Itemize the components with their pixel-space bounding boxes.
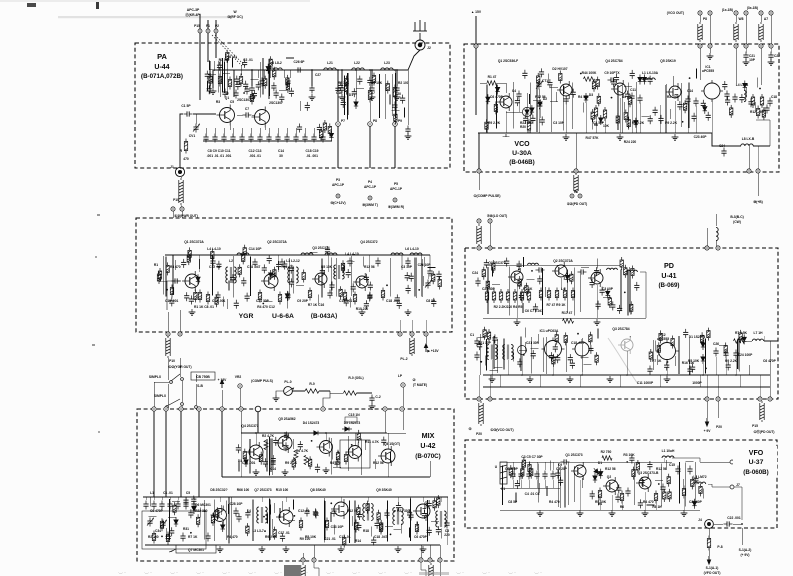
trimmer CT1 bbox=[536, 81, 541, 90]
wire bbox=[241, 65, 243, 75]
pin LO c bbox=[477, 246, 481, 250]
resistors right bbox=[751, 94, 754, 108]
capacitor bbox=[217, 62, 222, 71]
diode D2 PD bbox=[701, 354, 705, 364]
wire bbox=[251, 78, 259, 80]
resistor bbox=[215, 294, 218, 307]
capacitor bbox=[289, 265, 294, 274]
svg-text:R2 2.2K/220 R4 R5: R2 2.2K/220 R4 R5 bbox=[494, 305, 523, 309]
svg-text:·—· ··: ·—· ·· bbox=[352, 571, 360, 575]
wire bbox=[352, 516, 354, 526]
svg-text:Q7 2SC373: Q7 2SC373 bbox=[254, 488, 271, 492]
svg-text:R8 1K: R8 1K bbox=[652, 505, 662, 509]
wire bbox=[168, 517, 176, 519]
diode in box bbox=[174, 517, 178, 527]
VFO top rail bbox=[500, 461, 586, 463]
svg-text:D3: D3 bbox=[589, 93, 593, 97]
svg-text:·—· ··: ·—· ·· bbox=[274, 571, 282, 575]
wire bbox=[363, 257, 365, 267]
junction bbox=[658, 483, 660, 485]
wire riser bbox=[622, 85, 624, 132]
svg-text:R9 2.2K: R9 2.2K bbox=[265, 535, 278, 539]
svg-text:C15 .001: C15 .001 bbox=[212, 299, 226, 303]
junction bbox=[705, 368, 707, 370]
wire riser bbox=[335, 258, 337, 297]
wire riser bbox=[347, 73, 349, 115]
wire YGR out right bbox=[416, 255, 430, 268]
svg-text:SIMPLX: SIMPLX bbox=[149, 375, 162, 379]
svg-text:C14: C14 bbox=[687, 89, 693, 93]
resistor bbox=[592, 79, 595, 92]
svg-text:P-8: P-8 bbox=[717, 545, 722, 549]
resistor bbox=[700, 332, 703, 345]
svg-text:PL-0: PL-0 bbox=[284, 380, 291, 384]
svg-text:Q5 2SK19: Q5 2SK19 bbox=[660, 59, 676, 63]
wire riser bbox=[217, 61, 219, 92]
diode bbox=[269, 270, 273, 280]
svg-text:C3 10P: C3 10P bbox=[593, 121, 605, 125]
scan artifact top-left bbox=[27, 3, 36, 7]
resistor bbox=[238, 264, 241, 277]
capacitor bbox=[338, 82, 343, 91]
gnd sub bbox=[253, 469, 260, 475]
resistor bbox=[341, 260, 344, 273]
svg-text:R66 100: R66 100 bbox=[237, 488, 250, 492]
resistor Rin bbox=[158, 268, 161, 282]
wire riser bbox=[288, 258, 290, 299]
svg-text:L4: L4 bbox=[247, 509, 251, 513]
svg-text:C15 .001: C15 .001 bbox=[165, 299, 179, 303]
svg-text:R12 56: R12 56 bbox=[364, 265, 375, 269]
wire P15 down bbox=[199, 33, 201, 70]
wire bbox=[150, 497, 152, 507]
diode bbox=[196, 274, 200, 284]
wire bbox=[356, 88, 364, 90]
pin P8 bbox=[368, 122, 373, 127]
wire riser bbox=[633, 463, 635, 505]
capacitor C18 bbox=[767, 98, 772, 107]
driver stage cluster bbox=[199, 70, 201, 100]
wire riser bbox=[520, 336, 522, 371]
wire bbox=[524, 342, 526, 352]
diode bbox=[593, 473, 597, 483]
transistor Q8 MIX right bbox=[378, 446, 395, 466]
transistor Q1 2SC1307 bbox=[217, 105, 235, 126]
capacitor bbox=[243, 81, 248, 90]
resistor bbox=[559, 71, 562, 84]
wire P8 down bbox=[369, 126, 371, 168]
coax below MIX left bbox=[301, 563, 305, 576]
svg-text:2SC1307: 2SC1307 bbox=[269, 101, 283, 105]
block YGR dashed border bbox=[136, 218, 452, 332]
svg-text:C18: C18 bbox=[771, 95, 777, 99]
xfmr MIX4 bbox=[436, 511, 446, 527]
svg-text:C21 30P: C21 30P bbox=[256, 299, 270, 303]
capacitor bbox=[371, 537, 376, 546]
wire bbox=[333, 466, 341, 468]
capacitor bbox=[169, 297, 174, 306]
resistor bbox=[591, 109, 594, 122]
inductor L23 bbox=[381, 68, 394, 70]
wire bbox=[174, 260, 176, 270]
capacitor bbox=[558, 477, 563, 486]
svg-text:Q2 2SC372A: Q2 2SC372A bbox=[267, 240, 287, 244]
wire riser bbox=[269, 436, 271, 475]
wire riser bbox=[361, 438, 363, 474]
pin PD br a bbox=[705, 397, 709, 401]
capacitor C20 分 bbox=[405, 126, 410, 135]
svg-text:Q8 3SK40: Q8 3SK40 bbox=[310, 488, 326, 492]
wire to bottom pins bbox=[302, 553, 304, 558]
svg-text:C3 C5 C7 30P: C3 C5 C7 30P bbox=[521, 455, 543, 459]
ground after P8 bbox=[709, 48, 711, 53]
wire bbox=[581, 357, 589, 359]
svg-text:PA: PA bbox=[157, 52, 167, 61]
wire bbox=[646, 504, 654, 506]
capacitor bbox=[375, 520, 380, 529]
resistor bbox=[596, 77, 599, 90]
wire riser bbox=[325, 501, 327, 540]
wire PD out right bbox=[745, 340, 752, 342]
wire riser bbox=[259, 62, 261, 98]
supply +13V right bbox=[424, 344, 427, 352]
transistor Q4 MIX bbox=[246, 442, 263, 462]
resistor bbox=[668, 489, 671, 502]
svg-text:R9 2.2K: R9 2.2K bbox=[488, 121, 501, 125]
svg-text:⑨(3WM T): ⑨(3WM T) bbox=[362, 203, 378, 207]
wire bbox=[672, 76, 674, 86]
resistor R8 bbox=[393, 85, 396, 100]
capacitor bbox=[236, 513, 241, 522]
capacitor bbox=[492, 334, 497, 343]
svg-text:C15 1N: C15 1N bbox=[348, 413, 360, 417]
diode D6 bbox=[192, 504, 196, 514]
wire bbox=[238, 461, 240, 471]
wire riser bbox=[211, 255, 213, 295]
svg-text:(B-071A,072B): (B-071A,072B) bbox=[141, 73, 183, 80]
svg-text:R12 56: R12 56 bbox=[373, 461, 384, 465]
wire riser bbox=[219, 59, 221, 97]
pin P9 bbox=[393, 122, 398, 127]
wire riser bbox=[629, 267, 631, 313]
capacitor bbox=[368, 282, 373, 291]
capacitor bbox=[648, 76, 653, 85]
svg-text:R18: R18 bbox=[363, 529, 369, 533]
capacitor C26 bbox=[295, 67, 304, 72]
svg-text:Ⓥ(KR-4P): Ⓥ(KR-4P) bbox=[185, 12, 200, 17]
wire bbox=[518, 476, 520, 486]
resistor bbox=[487, 329, 490, 342]
wire bbox=[431, 520, 439, 522]
resistor bbox=[494, 101, 497, 114]
wire below MIX c bbox=[421, 562, 426, 576]
capacitor bbox=[241, 277, 246, 286]
wire riser bbox=[268, 499, 270, 541]
svg-text:R15 100: R15 100 bbox=[276, 488, 289, 492]
capacitor bbox=[242, 59, 247, 68]
resistor bbox=[724, 343, 727, 356]
svg-text:.001 .01 .01 .001: .001 .01 .01 .001 bbox=[207, 154, 232, 158]
diode D1 PD bbox=[701, 340, 705, 350]
wire bbox=[272, 519, 274, 529]
wire riser bbox=[252, 500, 254, 542]
svg-text:R4 470 C12: R4 470 C12 bbox=[257, 305, 275, 309]
resistors lower bbox=[299, 518, 302, 531]
capacitor bbox=[436, 526, 441, 535]
wire riser bbox=[681, 83, 683, 127]
svg-text:R2 100: R2 100 bbox=[667, 95, 678, 99]
resistor bbox=[336, 450, 339, 463]
ic IC1 PD bbox=[542, 338, 565, 361]
svg-text:R5 10K: R5 10K bbox=[371, 81, 383, 85]
junction bbox=[330, 502, 332, 504]
wire riser bbox=[395, 73, 397, 117]
svg-text:P7: P7 bbox=[341, 119, 345, 123]
resistor bbox=[273, 67, 276, 80]
wire riser bbox=[343, 76, 345, 115]
svg-text:·—· ··: ·—· ·· bbox=[326, 571, 334, 575]
pin MIX big bbox=[255, 406, 261, 412]
capacitor bbox=[658, 115, 663, 124]
caps PD left bbox=[474, 338, 479, 347]
resistor cluster YGR1 bbox=[198, 290, 201, 303]
wire bbox=[375, 459, 377, 469]
wire bbox=[389, 94, 391, 104]
resistor bbox=[552, 354, 555, 367]
wire switch risers bbox=[167, 358, 169, 380]
wire bbox=[522, 303, 524, 313]
capacitor bbox=[381, 437, 386, 446]
svg-text:⑩(+B): ⑩(+B) bbox=[753, 200, 762, 204]
small parts row bbox=[257, 70, 259, 78]
pin MIX bottom d bbox=[428, 558, 432, 562]
wire riser bbox=[496, 85, 498, 129]
wire riser bbox=[323, 498, 325, 542]
svg-text:C14 10P: C14 10P bbox=[249, 247, 263, 251]
svg-text:C21 30P: C21 30P bbox=[482, 287, 496, 291]
wire bbox=[696, 69, 698, 79]
resistor bbox=[657, 342, 660, 355]
junction bbox=[264, 530, 266, 532]
capacitor bbox=[357, 511, 362, 520]
wire riser bbox=[421, 255, 423, 296]
resistor bbox=[160, 518, 163, 531]
resistor bbox=[589, 332, 592, 345]
diode bbox=[642, 75, 646, 85]
trimmer CV1 bbox=[193, 124, 198, 133]
wire bbox=[657, 355, 659, 365]
capacitor bbox=[614, 74, 619, 83]
capacitor bbox=[364, 300, 369, 309]
wire bbox=[264, 301, 272, 303]
wire bbox=[655, 340, 657, 350]
junction bbox=[204, 510, 206, 512]
svg-text:10P: 10P bbox=[749, 58, 756, 62]
gnd VFO bbox=[537, 510, 544, 516]
svg-text:①(COMP PULSE): ①(COMP PULSE) bbox=[474, 194, 501, 198]
svg-text:R1 1K C8 .01: R1 1K C8 .01 bbox=[194, 305, 214, 309]
capacitor bbox=[191, 496, 196, 505]
wire PD second bus bbox=[483, 386, 770, 388]
wire bbox=[385, 526, 393, 528]
resistor bbox=[630, 301, 633, 314]
pin W8a bbox=[734, 11, 738, 15]
wire bbox=[228, 281, 230, 291]
inductor L21 bbox=[324, 68, 337, 70]
svg-text:·—· ··: ·—· ·· bbox=[300, 571, 308, 575]
svg-text:C1 5P: C1 5P bbox=[181, 104, 191, 108]
svg-text:C26 10P: C26 10P bbox=[418, 263, 432, 267]
transistor T4 YGR bbox=[353, 273, 368, 291]
svg-text:L23: L23 bbox=[384, 61, 390, 65]
svg-text:C5: C5 bbox=[186, 491, 190, 495]
wire bbox=[330, 512, 332, 522]
wire bbox=[527, 278, 535, 280]
capacitor bbox=[356, 522, 361, 531]
capacitor bbox=[298, 441, 303, 450]
wire riser bbox=[165, 257, 167, 297]
block VFO dashed border bbox=[465, 440, 777, 528]
svg-text:+ 13V: + 13V bbox=[218, 378, 228, 382]
svg-text:Q4 2SC784: Q4 2SC784 bbox=[605, 59, 622, 63]
capacitor bbox=[664, 362, 669, 371]
pin VCO supply bbox=[474, 44, 478, 48]
wire riser bbox=[270, 438, 272, 471]
capacitor bbox=[289, 88, 294, 97]
capacitor bbox=[725, 97, 730, 106]
wire riser bbox=[620, 270, 622, 311]
junction bbox=[190, 532, 192, 534]
diode D4 MIX bbox=[311, 431, 321, 435]
wire bbox=[299, 101, 301, 111]
wire bbox=[598, 496, 600, 506]
wire sub risers bbox=[255, 433, 257, 445]
coax stub YGR OUT bbox=[166, 336, 170, 358]
diode bbox=[703, 104, 707, 114]
capacitor bbox=[325, 246, 330, 255]
capacitor bbox=[764, 105, 769, 114]
wire bbox=[515, 492, 517, 502]
resistor R5 bbox=[294, 451, 298, 460]
resistor in box lower bbox=[152, 531, 155, 544]
svg-text:R6 4.7K: R6 4.7K bbox=[296, 449, 309, 453]
wire bbox=[364, 440, 366, 450]
pin P10a bbox=[171, 207, 175, 211]
wire bbox=[220, 505, 222, 515]
wire riser bbox=[627, 83, 629, 129]
resistor bbox=[345, 82, 348, 95]
svg-text:R11 4.7K: R11 4.7K bbox=[365, 440, 379, 444]
svg-text:P20: P20 bbox=[476, 432, 482, 436]
PD bus junctions bbox=[491, 374, 493, 376]
wire bbox=[519, 349, 527, 351]
transistor Q3 VFO bbox=[636, 474, 651, 492]
resistor bbox=[537, 73, 540, 86]
capacitor bbox=[693, 475, 698, 484]
svg-text:C12 C13: C12 C13 bbox=[248, 149, 261, 153]
pin YGR br2 bbox=[410, 332, 414, 336]
svg-text:C12 .01: C12 .01 bbox=[209, 265, 221, 269]
wire bbox=[417, 522, 419, 532]
wire riser bbox=[558, 463, 560, 507]
resistor bbox=[243, 449, 246, 462]
pin P7 bbox=[336, 122, 341, 127]
wire riser bbox=[573, 466, 575, 502]
capacitor bbox=[647, 461, 652, 470]
svg-text:CV1: CV1 bbox=[189, 134, 196, 138]
svg-text:C3 10P: C3 10P bbox=[602, 287, 614, 291]
wire bbox=[166, 528, 168, 538]
diode bbox=[530, 105, 534, 115]
wire riser bbox=[661, 463, 663, 507]
svg-text:(B-069): (B-069) bbox=[659, 282, 680, 289]
wire riser bbox=[272, 438, 274, 475]
svg-text:·—· ··: ·—· ·· bbox=[482, 571, 490, 575]
wire bbox=[670, 109, 672, 119]
wire bbox=[597, 259, 599, 269]
capacitor bbox=[351, 283, 356, 292]
capacitor bbox=[701, 100, 706, 109]
capacitor bbox=[610, 301, 615, 310]
capacitor bbox=[540, 116, 545, 125]
capacitor bbox=[553, 343, 558, 352]
svg-text:.001 .01: .001 .01 bbox=[249, 154, 261, 158]
wire bbox=[232, 58, 234, 68]
resistor bbox=[211, 249, 214, 262]
arrow down VFO bbox=[707, 556, 710, 564]
wire bbox=[754, 102, 756, 112]
resistor bbox=[636, 460, 639, 473]
wire bbox=[537, 334, 539, 344]
wire bbox=[492, 284, 500, 286]
wire input riser bbox=[180, 114, 183, 167]
wire VCO bottom stubs bbox=[478, 133, 480, 169]
resistor bbox=[486, 278, 489, 291]
svg-text:J4: J4 bbox=[698, 518, 702, 522]
svg-text:R3: R3 bbox=[216, 100, 220, 104]
wire bbox=[642, 115, 650, 117]
svg-text:R4 470: R4 470 bbox=[283, 265, 294, 269]
wire bbox=[477, 337, 485, 339]
capacitor bbox=[615, 494, 620, 503]
capacitor C22 .001 bbox=[724, 521, 733, 526]
resistor bbox=[521, 466, 524, 479]
wire bbox=[296, 284, 304, 286]
coax below MIX right bbox=[429, 563, 433, 576]
VCO bus risers bbox=[505, 111, 507, 133]
svg-text:R24 220: R24 220 bbox=[624, 140, 637, 144]
svg-text:C13 10P: C13 10P bbox=[331, 525, 345, 529]
wire bbox=[748, 365, 750, 375]
diode bbox=[599, 115, 603, 125]
wire pins down to YGR bbox=[172, 211, 174, 218]
junction bbox=[682, 121, 684, 123]
wire Q2 emitter bbox=[264, 127, 266, 130]
svg-text:R31: R31 bbox=[183, 527, 189, 531]
svg-text:·—· ··: ·—· ·· bbox=[170, 571, 178, 575]
svg-text:R7 47 R9 1K: R7 47 R9 1K bbox=[546, 303, 566, 307]
pin MIX bottom b bbox=[312, 558, 316, 562]
resistor bbox=[345, 76, 348, 89]
transistor TB MIX bbox=[276, 507, 293, 527]
svg-text:C15 .001: C15 .001 bbox=[339, 299, 353, 303]
wire R0 down bbox=[323, 391, 330, 409]
resistor bbox=[649, 349, 652, 362]
resistor bbox=[264, 76, 267, 89]
capacitor bbox=[515, 480, 520, 489]
capacitor bbox=[431, 298, 436, 307]
svg-text:L1 LX-10A: L1 LX-10A bbox=[642, 71, 659, 75]
